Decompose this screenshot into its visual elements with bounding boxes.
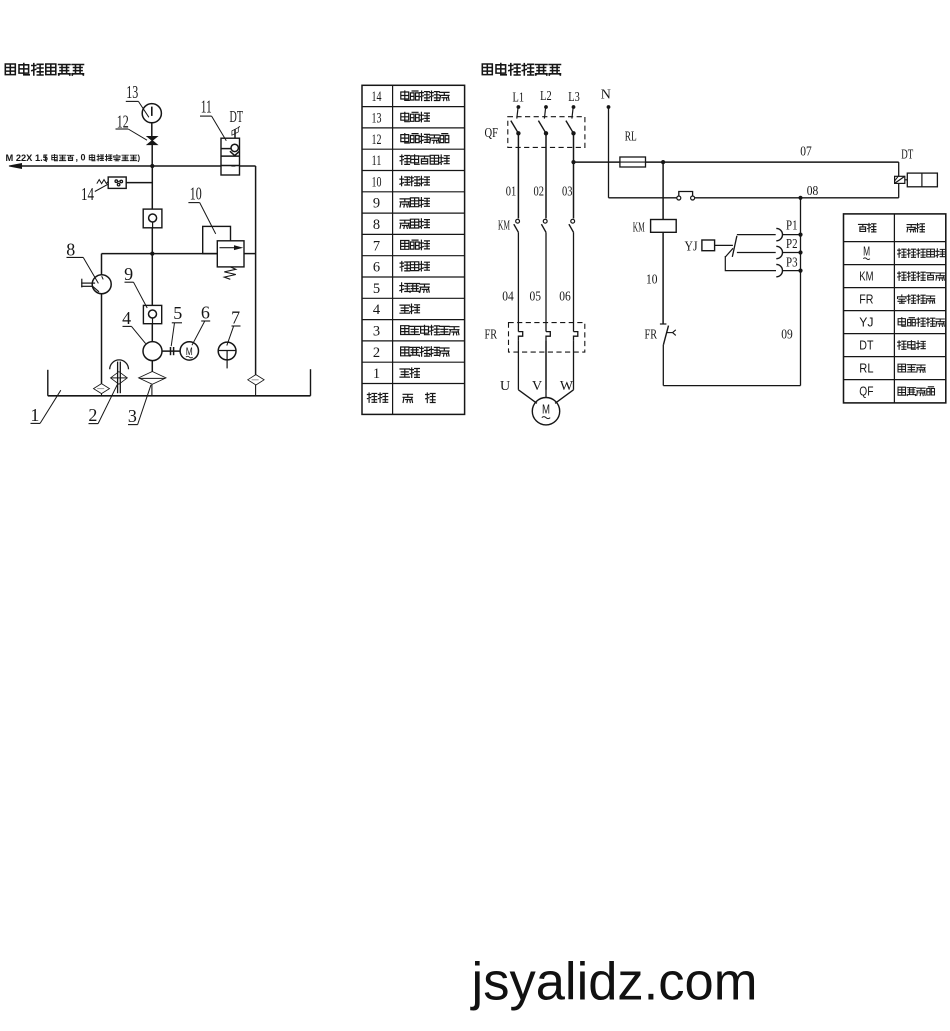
- check valve upper: [143, 166, 162, 228]
- svg-text:5: 5: [173, 303, 182, 323]
- bottom wire 09: [663, 271, 800, 386]
- svg-text:11: 11: [372, 153, 382, 169]
- svg-text:14: 14: [81, 184, 94, 204]
- svg-text:M 22X 1.5: M 22X 1.5: [6, 153, 48, 163]
- labels 04 05 06: [502, 289, 571, 304]
- FR thermal elements: [518, 332, 577, 390]
- svg-text:QF: QF: [484, 126, 498, 141]
- FR dashed enclosure: [509, 323, 585, 353]
- wire junction to hand pump drop: [102, 253, 218, 255]
- pressure relay 14: [97, 177, 126, 188]
- svg-text:KM: KM: [498, 219, 510, 234]
- svg-text:04: 04: [502, 289, 514, 304]
- svg-text:1: 1: [373, 366, 380, 382]
- label 3 with leader: [128, 385, 151, 426]
- incoming terminals L1 L2 L3 with QF breaker blades: [511, 105, 576, 135]
- svg-text:7: 7: [231, 308, 240, 328]
- svg-text:KM: KM: [633, 221, 645, 236]
- wire main to valve 11: [152, 165, 221, 167]
- svg-text:09: 09: [781, 328, 793, 343]
- label 8 with leader: [66, 239, 98, 283]
- svg-text:10: 10: [372, 174, 382, 190]
- label 1 with leader: [30, 390, 60, 425]
- parts list table frame: [362, 85, 465, 414]
- relief valve 10 main stage: [217, 241, 244, 279]
- svg-text:L3: L3: [568, 90, 580, 105]
- wire relay14 to main riser: [126, 182, 152, 184]
- return filter diamond: [248, 375, 264, 396]
- electric motor 6: [180, 342, 198, 360]
- junction node main: [150, 164, 154, 168]
- label 10 with leader: [188, 184, 215, 234]
- start contact (bridge): [677, 192, 899, 201]
- svg-text:12: 12: [372, 132, 382, 148]
- hand pump 8: [81, 254, 111, 294]
- svg-text:05: 05: [530, 289, 542, 304]
- svg-text:2: 2: [88, 405, 97, 425]
- svg-text:RL: RL: [859, 362, 873, 376]
- wire relief valve to right riser: [244, 253, 256, 255]
- oil pump 4: [143, 324, 162, 361]
- svg-text:07: 07: [800, 144, 812, 159]
- label 2 with leader: [88, 385, 117, 425]
- title: hydraulic control diagram 液压站液控图: [5, 64, 83, 76]
- label 4 with leader: [122, 308, 146, 344]
- svg-text:RL: RL: [625, 129, 637, 144]
- DT solenoid valve: [895, 162, 938, 198]
- svg-text:5: 5: [373, 281, 380, 297]
- svg-text:7: 7: [373, 238, 380, 254]
- svg-text:03: 03: [562, 184, 573, 199]
- svg-text:9: 9: [373, 196, 380, 212]
- solenoid actuator flag on valve 11: [232, 126, 240, 138]
- svg-text:V: V: [532, 379, 542, 394]
- svg-text:KM: KM: [859, 270, 873, 284]
- legend table frame: [844, 214, 946, 403]
- svg-text:QF: QF: [859, 385, 873, 399]
- svg-text:jsyalidz.com: jsyalidz.com: [470, 953, 758, 1012]
- parts table header row 序号/名称: [367, 393, 435, 403]
- svg-text:P3: P3: [786, 255, 798, 270]
- check valve 9: [143, 254, 161, 324]
- parts table rows 14..1: [372, 89, 450, 105]
- svg-text:YJ: YJ: [685, 240, 698, 255]
- legend rows: [863, 245, 944, 260]
- node 07 tap: [661, 160, 665, 164]
- wire gauge-valve-junction: [151, 123, 153, 166]
- strainer diamond under pump 8: [94, 384, 110, 396]
- svg-text:N: N: [601, 87, 611, 102]
- svg-text:8: 8: [66, 239, 75, 259]
- svg-text:8: 8: [373, 217, 380, 233]
- svg-text:10: 10: [190, 184, 202, 204]
- label 13 with leader: [126, 82, 149, 117]
- label 7 with leader: [227, 308, 241, 346]
- svg-text:P2: P2: [786, 237, 798, 252]
- svg-text:6: 6: [373, 260, 380, 276]
- title: electric control diagram 液压站电控图: [482, 64, 560, 76]
- svg-text:,: ,: [76, 153, 79, 163]
- svg-text:DT: DT: [859, 339, 873, 353]
- svg-text:(: (: [45, 153, 48, 162]
- QF dashed enclosure: [508, 117, 585, 148]
- label 9 with leader: [124, 264, 147, 308]
- RL fuse: [574, 157, 899, 167]
- svg-text:DT: DT: [230, 107, 244, 126]
- wire hand pump to suction filter: [101, 294, 103, 384]
- svg-text:3: 3: [128, 406, 137, 426]
- svg-text:08: 08: [807, 184, 819, 199]
- level gauge 7: [218, 342, 236, 368]
- svg-text:06: 06: [559, 289, 571, 304]
- KM main contacts: [514, 219, 575, 331]
- svg-text:L2: L2: [540, 89, 552, 104]
- svg-text:02: 02: [534, 184, 545, 199]
- label 11 with leader: [200, 97, 226, 141]
- relief valve 10 pilot box: [203, 226, 231, 253]
- label 5 with leader: [171, 303, 182, 346]
- svg-text:L1: L1: [513, 91, 525, 106]
- svg-text:9: 9: [124, 264, 133, 284]
- svg-text:3: 3: [373, 323, 380, 339]
- svg-text:4: 4: [122, 308, 131, 328]
- svg-text:YJ: YJ: [859, 316, 873, 330]
- wire riser to junction: [151, 228, 153, 254]
- node 08 tap: [798, 196, 802, 200]
- svg-text:M: M: [863, 245, 870, 259]
- motor M with feed wires: [518, 340, 573, 425]
- svg-text:): ): [138, 153, 141, 162]
- labels 01 02 03: [506, 184, 573, 199]
- label 14 with leader: [81, 184, 108, 204]
- suction filter 3: [139, 361, 166, 396]
- svg-text:4: 4: [373, 302, 381, 318]
- svg-text:01: 01: [506, 184, 517, 199]
- neutral wire N down and right: [607, 105, 677, 198]
- legend header 代号/名称: [859, 223, 925, 232]
- svg-text:FR: FR: [645, 328, 658, 343]
- svg-text:14: 14: [372, 89, 383, 105]
- label 12 with leader: [116, 112, 148, 141]
- phase wires to KM contacts: [518, 133, 573, 218]
- svg-text:13: 13: [126, 82, 138, 102]
- P1 P2 P3 socket contacts: [737, 228, 803, 276]
- labels U V W: [500, 379, 574, 394]
- KM coil: [651, 162, 677, 324]
- note M 22X1.5 (external thread, O-ring face seal): [6, 153, 141, 163]
- svg-text:13: 13: [372, 110, 382, 126]
- outlet pipe with arrow: [9, 164, 152, 169]
- svg-text:1: 1: [30, 405, 39, 425]
- svg-text:M: M: [542, 403, 550, 417]
- svg-text:2: 2: [373, 345, 380, 361]
- svg-text:P1: P1: [786, 218, 798, 233]
- air filter 2: [110, 360, 129, 393]
- svg-text:10: 10: [646, 273, 658, 288]
- svg-text:0: 0: [81, 153, 86, 163]
- node L3 tap: [571, 160, 575, 164]
- solenoid check valve 11: [221, 138, 240, 175]
- pressure gauge 13: [142, 104, 161, 123]
- YJ pressure switch: [702, 236, 776, 271]
- riser 08 to P contacts: [800, 198, 802, 271]
- wire valve11 to right riser: [240, 166, 256, 375]
- junction node pump line: [150, 252, 154, 256]
- gauge switch valve 12: [147, 137, 157, 145]
- svg-text:FR: FR: [485, 328, 498, 343]
- svg-text:11: 11: [201, 97, 212, 117]
- svg-text:U: U: [500, 379, 510, 394]
- oil tank 1: [48, 369, 311, 396]
- FR trip contact: [660, 324, 676, 386]
- svg-text:DT: DT: [901, 148, 913, 163]
- coupling 5: [162, 347, 180, 355]
- label 6 with leader: [192, 303, 210, 346]
- svg-text:FR: FR: [859, 293, 873, 307]
- svg-text:6: 6: [201, 303, 210, 323]
